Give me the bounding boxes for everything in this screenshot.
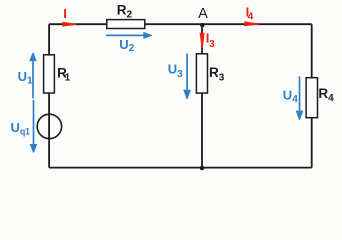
wire right branch bbox=[311, 24, 313, 167]
wire middle branch bbox=[201, 24, 203, 167]
resistor R1 bbox=[44, 55, 71, 93]
voltage arrow U4 bbox=[283, 76, 304, 120]
svg-text:A: A bbox=[198, 6, 208, 22]
svg-text:U2: U2 bbox=[119, 37, 134, 54]
wire bottom bbox=[49, 167, 312, 169]
resistor R4 bbox=[306, 78, 334, 118]
svg-text:R2: R2 bbox=[117, 3, 133, 21]
svg-text:U3: U3 bbox=[168, 62, 183, 81]
junction node bottom bbox=[200, 166, 205, 171]
current arrow I4 bbox=[244, 4, 259, 26]
voltage arrow U2 bbox=[106, 32, 152, 54]
svg-text:I: I bbox=[63, 6, 67, 21]
svg-text:U4: U4 bbox=[283, 87, 298, 105]
voltage arrow Uq1 bbox=[11, 100, 38, 153]
resistor R2 bbox=[107, 3, 145, 29]
svg-text:R4: R4 bbox=[318, 86, 334, 104]
svg-text:U1: U1 bbox=[18, 69, 33, 87]
voltage arrow U3 bbox=[168, 54, 191, 100]
svg-text:Uq1: Uq1 bbox=[11, 120, 30, 136]
current arrow I bbox=[62, 6, 76, 27]
current arrow I3 bbox=[200, 30, 216, 49]
voltage source Uq1 bbox=[37, 114, 61, 138]
svg-text:R3: R3 bbox=[209, 65, 225, 83]
resistor R3 bbox=[196, 54, 224, 93]
voltage arrow U1 bbox=[18, 53, 37, 99]
svg-text:R1: R1 bbox=[57, 65, 71, 83]
svg-text:I4: I4 bbox=[246, 4, 254, 22]
svg-text:I3: I3 bbox=[206, 30, 215, 49]
wire top bbox=[49, 23, 312, 25]
node A bbox=[198, 6, 208, 27]
wire left branch bbox=[48, 24, 50, 167]
